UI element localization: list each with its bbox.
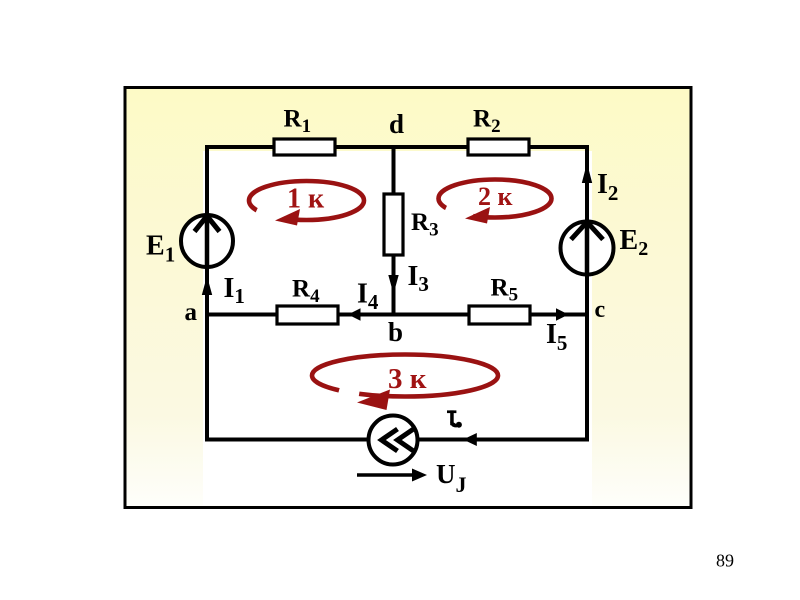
svg-text:2 к: 2 к <box>478 182 513 211</box>
svg-text:1 к: 1 к <box>287 184 325 215</box>
svg-text:a: a <box>185 299 198 326</box>
svg-text:89: 89 <box>716 551 734 571</box>
svg-text:3 к: 3 к <box>388 363 427 395</box>
svg-text:d: d <box>389 109 404 139</box>
svg-text:b: b <box>388 317 403 347</box>
svg-text:c: c <box>595 297 606 323</box>
